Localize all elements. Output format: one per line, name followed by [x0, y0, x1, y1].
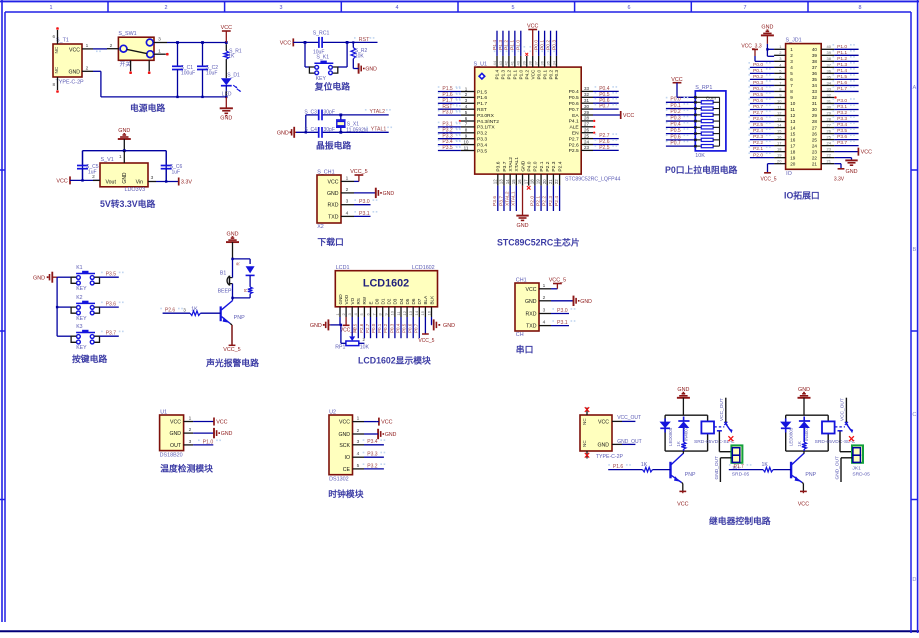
svg-text:PNP: PNP [234, 315, 245, 321]
svg-text:RXD: RXD [526, 312, 537, 318]
svg-text:16: 16 [790, 137, 796, 142]
svg-text:ALE: ALE [569, 125, 579, 131]
svg-text:5V转3.3V电路: 5V转3.3V电路 [100, 198, 155, 209]
svg-text:P1.1: P1.1 [510, 40, 516, 50]
svg-text:VCC_5: VCC_5 [760, 177, 776, 183]
svg-text:XTAL1: XTAL1 [514, 157, 520, 172]
svg-text:23: 23 [812, 149, 818, 154]
svg-text:P1.0: P1.0 [837, 44, 847, 50]
svg-text:DS1302: DS1302 [329, 477, 348, 483]
svg-text:P1.7: P1.7 [477, 101, 487, 107]
svg-text:21: 21 [827, 159, 832, 164]
svg-text:20: 20 [777, 159, 782, 164]
svg-text:P2.1: P2.1 [753, 146, 763, 152]
svg-text:GND: GND [525, 299, 537, 305]
svg-text:K3: K3 [76, 324, 82, 330]
svg-text:SRD-05: SRD-05 [852, 472, 870, 478]
svg-text:VCC: VCC [216, 420, 227, 426]
svg-text:P0.2: P0.2 [545, 40, 551, 50]
svg-text:P1.1: P1.1 [837, 50, 847, 56]
svg-text:28: 28 [584, 116, 590, 121]
svg-text:36: 36 [539, 60, 544, 65]
svg-text:P1.7: P1.7 [734, 464, 745, 470]
svg-text:P2.1: P2.1 [539, 161, 545, 171]
svg-text:KEY: KEY [76, 345, 87, 351]
svg-text:P3.0: P3.0 [837, 98, 847, 104]
svg-text:GND: GND [327, 191, 339, 197]
svg-text:VCC: VCC [328, 179, 339, 185]
svg-text:DS18B20: DS18B20 [160, 452, 183, 458]
svg-text:P0.6: P0.6 [670, 134, 681, 140]
svg-text:OUT: OUT [170, 443, 182, 449]
svg-text:GND: GND [277, 130, 289, 136]
svg-text:4: 4 [346, 210, 349, 216]
svg-text:8: 8 [859, 5, 862, 11]
svg-text:11: 11 [790, 107, 795, 112]
svg-text:1: 1 [50, 5, 53, 11]
svg-text:P2.4: P2.4 [557, 161, 563, 171]
svg-text:36: 36 [812, 71, 818, 76]
svg-text:开关: 开关 [120, 60, 132, 68]
svg-text:18: 18 [529, 179, 534, 184]
svg-text:IN4007: IN4007 [804, 426, 809, 441]
svg-text:BEEP: BEEP [218, 289, 232, 295]
svg-text:21: 21 [812, 161, 818, 166]
svg-text:P3.1: P3.1 [557, 320, 568, 326]
svg-text:17: 17 [777, 141, 782, 146]
svg-text:EN: EN [572, 131, 579, 137]
svg-text:A: A [913, 85, 917, 91]
svg-text:P0.2: P0.2 [753, 74, 763, 80]
svg-text:P2.6: P2.6 [165, 308, 176, 314]
svg-text:VCC: VCC [280, 40, 291, 46]
svg-text:40: 40 [812, 47, 818, 52]
svg-text:13: 13 [408, 310, 413, 315]
svg-text:VCC: VCC [69, 48, 80, 54]
svg-text:P0.3: P0.3 [551, 40, 557, 50]
svg-text:NC: NC [54, 66, 59, 73]
svg-text:12: 12 [790, 113, 796, 118]
svg-text:P1.4: P1.4 [492, 40, 498, 50]
svg-text:30: 30 [812, 107, 818, 112]
svg-text:10K: 10K [695, 153, 705, 159]
svg-text:继电器控制电路: 继电器控制电路 [709, 515, 771, 526]
svg-text:SRD-05VDC-SL-C: SRD-05VDC-SL-C [694, 439, 735, 445]
svg-text:GND: GND [517, 223, 529, 229]
svg-text:27: 27 [584, 122, 590, 127]
svg-text:25: 25 [827, 135, 832, 140]
svg-text:P0.3: P0.3 [753, 80, 763, 86]
svg-text:39: 39 [522, 60, 527, 65]
svg-text:12: 12 [492, 179, 497, 184]
svg-text:15: 15 [420, 310, 425, 315]
svg-text:22: 22 [827, 153, 832, 158]
svg-text:16: 16 [517, 179, 522, 184]
svg-text:22: 22 [812, 155, 818, 160]
svg-text:2: 2 [357, 428, 360, 434]
svg-text:P3.2: P3.2 [367, 463, 378, 469]
svg-text:STC89C52RC_LQFP44: STC89C52RC_LQFP44 [565, 176, 620, 182]
svg-text:K2: K2 [76, 295, 82, 301]
svg-text:P1.3: P1.3 [501, 69, 506, 79]
svg-text:串口: 串口 [516, 344, 534, 355]
svg-text:S_SW1: S_SW1 [118, 31, 136, 37]
svg-text:38: 38 [827, 56, 832, 61]
svg-text:LDO3V3: LDO3V3 [125, 187, 146, 193]
svg-text:22: 22 [554, 179, 559, 184]
svg-text:P3.3: P3.3 [477, 137, 487, 143]
svg-text:12: 12 [777, 110, 782, 115]
svg-text:35: 35 [812, 77, 818, 82]
svg-text:33: 33 [584, 86, 590, 91]
svg-text:D2: D2 [387, 298, 392, 304]
svg-text:BLK: BLK [429, 295, 434, 305]
svg-text:TYPE-C-2P: TYPE-C-2P [596, 454, 624, 460]
svg-text:XTAL1: XTAL1 [511, 191, 517, 206]
svg-text:29: 29 [812, 113, 818, 118]
svg-text:6: 6 [628, 5, 631, 11]
svg-text:P0.4: P0.4 [670, 122, 681, 128]
svg-text:2: 2 [543, 295, 546, 301]
svg-text:NC: NC [54, 46, 59, 53]
svg-text:25: 25 [812, 137, 818, 142]
svg-text:6: 6 [790, 77, 793, 82]
svg-text:VO: VO [350, 297, 355, 304]
svg-text:P0.5: P0.5 [402, 323, 407, 333]
svg-text:3: 3 [790, 59, 793, 64]
svg-text:1K: 1K [676, 441, 681, 446]
svg-text:P3.6: P3.6 [492, 196, 498, 206]
svg-text:PNP: PNP [805, 472, 816, 478]
svg-text:P2.0: P2.0 [529, 196, 535, 206]
svg-text:SCK: SCK [339, 443, 350, 449]
svg-text:19: 19 [536, 179, 541, 184]
svg-text:P1.2: P1.2 [837, 56, 847, 62]
svg-text:4: 4 [790, 65, 793, 70]
svg-text:C: C [912, 412, 916, 418]
svg-text:P4.0: P4.0 [527, 161, 533, 171]
svg-text:P2.5: P2.5 [753, 122, 763, 128]
svg-text:P0.7: P0.7 [599, 104, 610, 110]
svg-text:31: 31 [584, 98, 590, 103]
svg-text:13: 13 [790, 119, 796, 124]
svg-text:P0.1: P0.1 [539, 40, 545, 50]
svg-text:P3.0: P3.0 [557, 308, 568, 314]
svg-text:14: 14 [414, 310, 419, 315]
svg-text:2: 2 [189, 427, 192, 433]
svg-text:39: 39 [812, 53, 818, 58]
svg-text:P1.5: P1.5 [477, 89, 487, 95]
svg-text:P0.3: P0.3 [670, 115, 681, 121]
svg-text:P1.6: P1.6 [477, 95, 487, 101]
svg-text:20: 20 [790, 161, 796, 166]
svg-text:P0.7: P0.7 [414, 323, 419, 333]
svg-text:P2.3: P2.3 [753, 134, 763, 140]
svg-text:1: 1 [119, 154, 122, 159]
svg-text:1K: 1K [762, 462, 769, 468]
svg-text:P3.4: P3.4 [477, 142, 487, 148]
svg-text:VCC: VCC [339, 420, 350, 426]
svg-text:YTAL2: YTAL2 [370, 109, 386, 115]
svg-text:GND_OUT: GND_OUT [617, 439, 641, 445]
svg-text:P1.2: P1.2 [504, 40, 510, 50]
svg-text:VCC_3.3: VCC_3.3 [741, 44, 762, 50]
svg-text:20: 20 [542, 179, 547, 184]
svg-text:S_C4: S_C4 [304, 127, 317, 133]
svg-text:P3.6: P3.6 [106, 301, 117, 307]
svg-text:7: 7 [744, 5, 747, 11]
svg-text:4: 4 [357, 451, 360, 457]
svg-text:TXD: TXD [526, 324, 537, 330]
svg-text:P0.6: P0.6 [408, 323, 413, 333]
svg-text:3: 3 [189, 439, 192, 445]
svg-text:P3.2: P3.2 [477, 131, 487, 137]
svg-text:P3.2: P3.2 [837, 110, 847, 116]
svg-text:P3.5: P3.5 [442, 145, 453, 151]
svg-text:P0.2: P0.2 [548, 69, 553, 79]
svg-text:P2.6: P2.6 [359, 323, 364, 333]
svg-text:KEY: KEY [76, 286, 87, 292]
svg-text:12: 12 [402, 310, 407, 315]
svg-text:3: 3 [183, 308, 186, 313]
svg-text:P0.5: P0.5 [569, 95, 579, 101]
svg-text:18: 18 [777, 147, 782, 152]
svg-text:S_RP1: S_RP1 [695, 85, 712, 91]
svg-text:26: 26 [827, 128, 832, 133]
svg-text:1K: 1K [797, 441, 802, 446]
svg-text:P3.3: P3.3 [367, 452, 378, 458]
svg-text:3.3V: 3.3V [834, 177, 845, 183]
svg-text:10: 10 [390, 310, 395, 315]
svg-text:S_X1: S_X1 [347, 121, 359, 127]
svg-text:43: 43 [498, 60, 503, 65]
svg-text:B1: B1 [220, 270, 226, 276]
svg-text:2: 2 [165, 5, 168, 11]
svg-text:GND: GND [846, 169, 858, 175]
svg-text:IO拓展口: IO拓展口 [784, 190, 820, 201]
svg-text:P1.6: P1.6 [837, 80, 847, 86]
svg-text:P3.6: P3.6 [496, 161, 502, 171]
svg-text:VCC: VCC [530, 69, 535, 80]
svg-text:GND: GND [338, 432, 350, 438]
svg-text:VCC: VCC [677, 502, 688, 508]
svg-text:IN4007: IN4007 [683, 426, 688, 441]
svg-text:VCC: VCC [623, 113, 634, 119]
svg-text:P0.7: P0.7 [670, 141, 681, 147]
svg-text:P0.1: P0.1 [542, 69, 547, 79]
svg-text:S_C3: S_C3 [304, 110, 317, 116]
svg-text:GND: GND [520, 160, 526, 171]
svg-text:TYPE-C-2P: TYPE-C-2P [56, 80, 85, 86]
svg-text:P0.4: P0.4 [753, 86, 763, 92]
svg-text:P1.0: P1.0 [516, 40, 522, 50]
svg-text:P0口上拉电阻电路: P0口上拉电阻电路 [665, 164, 738, 175]
svg-text:GND: GND [220, 116, 232, 122]
svg-text:34: 34 [812, 83, 818, 88]
svg-text:39: 39 [827, 50, 832, 55]
svg-text:P3.0RX: P3.0RX [477, 113, 495, 119]
svg-text:6: 6 [52, 34, 55, 39]
svg-text:XTAL2: XTAL2 [508, 157, 514, 172]
svg-text:7: 7 [790, 83, 793, 88]
svg-text:P2.7: P2.7 [753, 110, 763, 116]
svg-text:16: 16 [426, 310, 431, 315]
svg-text:P4.2: P4.2 [524, 69, 529, 79]
svg-text:P3.7: P3.7 [106, 331, 117, 337]
svg-text:36: 36 [827, 68, 832, 73]
svg-text:P2.2: P2.2 [542, 196, 548, 206]
svg-text:30pF: 30pF [324, 110, 335, 116]
svg-text:温度检测模块: 温度检测模块 [160, 463, 213, 474]
svg-text:P2.0: P2.0 [753, 152, 763, 158]
svg-text:P3.0: P3.0 [359, 199, 370, 205]
svg-text:GND: GND [443, 323, 455, 329]
svg-text:TXD: TXD [328, 214, 339, 220]
svg-text:1K: 1K [228, 54, 235, 60]
svg-text:19: 19 [790, 155, 796, 160]
svg-text:GND: GND [310, 323, 322, 329]
svg-text:VCC_OUT: VCC_OUT [719, 398, 725, 421]
svg-text:P1.1: P1.1 [513, 69, 518, 79]
svg-text:P3.3: P3.3 [837, 116, 847, 122]
svg-text:P0.3: P0.3 [389, 323, 394, 333]
svg-text:13: 13 [777, 116, 782, 121]
svg-text:P0.1: P0.1 [670, 103, 681, 109]
svg-text:P3.7: P3.7 [837, 140, 847, 146]
svg-text:P2.3: P2.3 [548, 196, 554, 206]
svg-text:LED0805: LED0805 [788, 427, 793, 446]
svg-text:下载口: 下载口 [317, 236, 343, 247]
svg-text:15: 15 [777, 128, 782, 133]
svg-text:GND: GND [68, 70, 80, 76]
svg-text:P3.5: P3.5 [106, 272, 117, 278]
svg-text:GND: GND [338, 294, 343, 305]
svg-text:P2.2: P2.2 [545, 161, 551, 171]
svg-text:S_JD1: S_JD1 [786, 38, 802, 44]
svg-text:P0.3: P0.3 [554, 69, 559, 79]
svg-text:GND: GND [169, 431, 181, 437]
svg-text:13: 13 [499, 179, 504, 184]
svg-text:VCC_OUT: VCC_OUT [617, 415, 641, 421]
svg-text:D6: D6 [411, 298, 416, 304]
svg-text:D5: D5 [405, 298, 410, 304]
svg-text:42: 42 [504, 60, 509, 65]
svg-text:S_RC1: S_RC1 [313, 30, 330, 36]
svg-text:31: 31 [812, 101, 818, 106]
svg-text:3: 3 [151, 175, 154, 181]
svg-text:IO: IO [345, 455, 350, 461]
svg-text:35: 35 [545, 60, 550, 65]
svg-text:B: B [913, 247, 917, 253]
svg-text:16: 16 [777, 135, 782, 140]
svg-text:24: 24 [812, 143, 818, 148]
svg-text:10K: 10K [355, 54, 365, 60]
svg-text:1: 1 [189, 416, 192, 422]
svg-text:P0.1: P0.1 [377, 323, 382, 333]
svg-text:10uF: 10uF [206, 71, 217, 77]
svg-text:GND_OUT: GND_OUT [834, 456, 840, 480]
svg-text:GND: GND [597, 442, 609, 448]
svg-text:GND: GND [383, 191, 395, 197]
svg-text:3: 3 [158, 37, 161, 43]
svg-text:P1.4: P1.4 [495, 69, 500, 79]
svg-text:D3: D3 [393, 298, 398, 304]
svg-text:27: 27 [812, 125, 818, 130]
svg-text:VCC: VCC [798, 502, 809, 508]
svg-text:100uF: 100uF [181, 71, 195, 77]
svg-text:3: 3 [280, 5, 283, 11]
svg-text:LED0805: LED0805 [668, 427, 673, 446]
svg-text:CE: CE [343, 467, 351, 473]
svg-text:RW: RW [362, 296, 367, 304]
svg-text:23: 23 [827, 147, 832, 152]
svg-text:32: 32 [812, 95, 818, 100]
svg-text:D1: D1 [381, 298, 386, 304]
svg-text:2: 2 [86, 65, 89, 71]
svg-text:GND: GND [580, 299, 592, 305]
svg-text:电源电路: 电源电路 [130, 102, 165, 113]
svg-text:PNP: PNP [685, 472, 696, 478]
svg-text:P0.2: P0.2 [670, 109, 681, 115]
svg-text:P0.0: P0.0 [670, 97, 681, 103]
svg-text:S_K1: S_K1 [316, 55, 329, 61]
svg-text:30: 30 [584, 104, 590, 109]
svg-text:14: 14 [790, 125, 796, 130]
svg-text:32: 32 [827, 92, 832, 97]
svg-text:5: 5 [357, 463, 360, 469]
svg-text:37: 37 [812, 65, 818, 70]
svg-text:P3.4: P3.4 [837, 122, 847, 128]
svg-text:10K: 10K [360, 344, 370, 350]
svg-text:按键电路: 按键电路 [72, 353, 107, 364]
svg-text:1K: 1K [641, 462, 648, 468]
svg-text:RXD: RXD [328, 203, 339, 209]
svg-text:5: 5 [790, 71, 793, 76]
svg-text:33: 33 [812, 89, 818, 94]
svg-text:VDD: VDD [344, 294, 349, 304]
svg-text:GND: GND [221, 431, 233, 437]
svg-text:34: 34 [827, 80, 832, 85]
svg-text:P3.6: P3.6 [837, 134, 847, 140]
svg-text:41: 41 [510, 60, 515, 65]
svg-text:P0.0: P0.0 [753, 62, 763, 68]
svg-text:9: 9 [790, 95, 793, 100]
svg-text:S_V1: S_V1 [101, 157, 114, 163]
svg-text:P0.6: P0.6 [569, 101, 579, 107]
svg-text:GND: GND [365, 67, 377, 73]
svg-text:VCC: VCC [170, 420, 181, 426]
svg-text:26: 26 [812, 131, 818, 136]
svg-text:P2.3: P2.3 [551, 161, 557, 171]
svg-text:1: 1 [357, 416, 360, 422]
svg-text:P0.4: P0.4 [395, 323, 400, 333]
svg-text:P1.2: P1.2 [507, 69, 512, 79]
svg-text:38: 38 [528, 60, 533, 65]
svg-text:LCD1602显示模块: LCD1602显示模块 [358, 355, 431, 366]
svg-text:3: 3 [357, 439, 360, 445]
svg-text:2: 2 [790, 53, 793, 58]
svg-text:14: 14 [505, 179, 510, 184]
svg-text:P0.5: P0.5 [670, 128, 681, 134]
svg-text:37: 37 [533, 60, 538, 65]
svg-text:BLA: BLA [423, 295, 428, 305]
svg-text:D0: D0 [374, 298, 379, 304]
svg-text:P1.3: P1.3 [498, 40, 504, 50]
svg-text:18: 18 [790, 149, 796, 154]
svg-text:21: 21 [548, 179, 553, 184]
svg-text:P1.4: P1.4 [837, 68, 847, 74]
svg-text:33: 33 [827, 86, 832, 91]
